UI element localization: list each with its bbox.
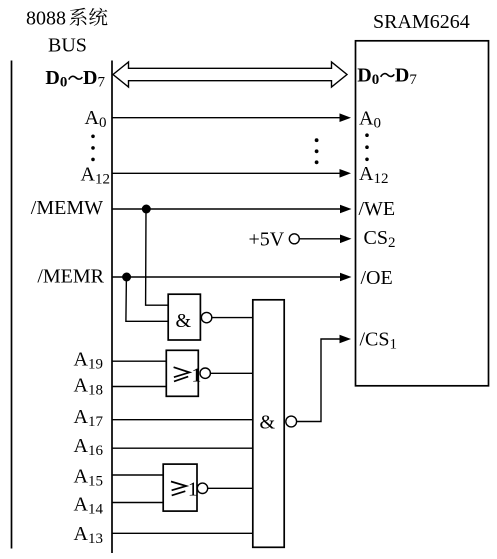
wire U1 output to NAND U3 xyxy=(212,317,253,319)
arrow into /OE pin xyxy=(340,273,352,282)
SRAM6264 box xyxy=(356,41,489,386)
svg-text:1: 1 xyxy=(188,478,198,500)
svg-text:&: & xyxy=(260,411,276,433)
wire A12 xyxy=(112,172,341,174)
svg-text:+5V: +5V xyxy=(249,229,285,251)
wire /MEMW branch down to NAND U1 xyxy=(146,209,168,305)
svg-text:8088: 8088 xyxy=(26,8,66,30)
wire A15 to NOR U4 xyxy=(112,474,163,476)
wire U3 output to /CS1 xyxy=(297,339,341,422)
NAND gate U1 body xyxy=(168,294,200,340)
NAND gate U3 body xyxy=(253,300,284,548)
wire U2 output to NAND U3 xyxy=(210,372,252,374)
ellipsis SRAM side xyxy=(365,133,369,161)
svg-text:/MEMR: /MEMR xyxy=(37,266,104,288)
wire A19 to NOR U2 xyxy=(112,360,166,362)
arrow into A0 pin xyxy=(340,113,352,122)
junction dot on /MEMR xyxy=(122,273,131,282)
wire A14 to NOR U4 xyxy=(112,502,163,504)
open circle at +5V xyxy=(289,234,299,244)
svg-text:BUS: BUS xyxy=(48,35,87,57)
wire /MEMR branch down to NAND U1 xyxy=(126,277,168,321)
junction dot on /MEMW xyxy=(142,205,151,214)
svg-text:/WE: /WE xyxy=(359,198,396,220)
NAND gate U3 bubble xyxy=(286,416,297,427)
svg-text:/OE: /OE xyxy=(361,267,393,289)
NOR gate U4 >=1 label xyxy=(171,482,186,496)
wire A0 xyxy=(112,117,341,119)
NOR gate U2 >=1 label xyxy=(174,367,190,381)
label D0~D7 (bus side) xyxy=(45,67,105,91)
bidirectional data bus arrow xyxy=(113,62,347,87)
wire A17 to NAND U3 xyxy=(112,419,253,421)
NOR gate U4 bubble xyxy=(197,483,207,493)
NOR gate U2 body xyxy=(166,350,198,396)
wire A16 to NAND U3 xyxy=(112,447,253,449)
wire A13 to NAND U3 xyxy=(112,532,253,534)
wire /MEMW to /WE xyxy=(112,208,342,210)
arrow into A12 pin xyxy=(340,169,352,178)
arrow into /CS1 pin xyxy=(340,335,352,344)
ellipsis bus side xyxy=(91,135,95,162)
ellipsis middle xyxy=(315,138,319,164)
svg-text:&: & xyxy=(176,310,192,332)
wire U4 output to NAND U3 xyxy=(208,487,253,489)
NAND gate U1 bubble xyxy=(201,312,211,322)
wire /MEMR to /OE xyxy=(112,276,342,278)
arrow into /WE pin xyxy=(340,205,352,214)
NOR gate U4 body xyxy=(163,464,197,511)
NOR gate U2 bubble xyxy=(200,368,210,378)
bus left rail xyxy=(11,61,13,549)
wire +5V to CS2 xyxy=(299,238,341,240)
bus right rail xyxy=(111,61,113,554)
svg-text:SRAM6264: SRAM6264 xyxy=(373,11,470,33)
pin D0~D7 (SRAM side) xyxy=(357,64,417,88)
wire A18 to NOR U2 xyxy=(112,386,166,388)
svg-text:/MEMW: /MEMW xyxy=(31,197,103,219)
arrow into CS2 pin xyxy=(340,235,352,244)
